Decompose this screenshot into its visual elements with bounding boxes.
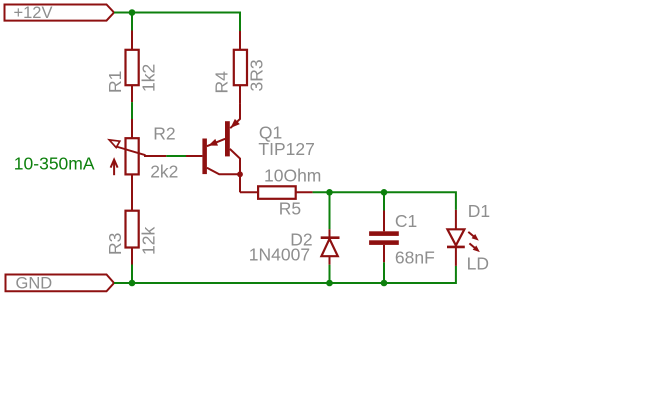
junction out/C1 xyxy=(381,189,388,196)
svg-text:1k2: 1k2 xyxy=(139,64,159,92)
wire +12V rail xyxy=(114,13,240,32)
junction GND/D2 xyxy=(326,280,333,287)
supply flag +12V xyxy=(5,5,115,21)
ground flag GND xyxy=(6,275,115,292)
capacitor C1 xyxy=(369,211,399,263)
wire to D2 xyxy=(329,192,331,229)
svg-text:R2: R2 xyxy=(153,123,175,143)
wire R3 to GND rail xyxy=(131,265,133,284)
current direction arrow xyxy=(111,160,118,176)
resistor R5 xyxy=(240,186,313,199)
svg-text:C1: C1 xyxy=(395,211,417,231)
resistor R3 xyxy=(126,193,139,265)
wire D2 to GND xyxy=(329,265,331,283)
svg-text:10-350mA: 10-350mA xyxy=(14,153,95,173)
wire to R1 xyxy=(131,13,133,31)
svg-text:TIP127: TIP127 xyxy=(258,139,314,159)
junction GND/R3 xyxy=(129,280,136,287)
svg-text:10Ohm: 10Ohm xyxy=(264,165,321,185)
svg-text:1N4007: 1N4007 xyxy=(249,244,310,264)
wire wiper net xyxy=(166,155,186,157)
diode D2 xyxy=(321,229,340,265)
svg-text:R4: R4 xyxy=(212,71,232,94)
resistor R1 xyxy=(126,31,139,103)
wire to C1 xyxy=(383,192,385,210)
svg-text:R1: R1 xyxy=(105,71,125,93)
svg-text:R3: R3 xyxy=(105,233,125,255)
svg-text:R5: R5 xyxy=(279,198,301,218)
svg-text:2k2: 2k2 xyxy=(150,162,178,182)
junction +12V node xyxy=(129,9,136,16)
resistor R4 xyxy=(234,31,247,104)
svg-text:GND: GND xyxy=(16,275,53,293)
transistor Q1 xyxy=(186,104,243,192)
wire GND rail xyxy=(114,266,456,283)
junction GND/C1 xyxy=(381,280,388,287)
junction out/D2 xyxy=(326,189,333,196)
svg-text:68nF: 68nF xyxy=(395,248,435,268)
wire R1 to R2 xyxy=(131,102,133,119)
LED D1 xyxy=(447,210,480,266)
wire C1 to GND xyxy=(383,262,385,283)
svg-text:+12V: +12V xyxy=(14,4,53,22)
svg-text:D1: D1 xyxy=(468,201,490,221)
svg-text:3R3: 3R3 xyxy=(247,59,267,91)
svg-text:12k: 12k xyxy=(139,227,159,255)
svg-text:LD: LD xyxy=(467,254,489,274)
potentiometer R2 xyxy=(109,119,166,193)
wire output net xyxy=(313,192,456,210)
